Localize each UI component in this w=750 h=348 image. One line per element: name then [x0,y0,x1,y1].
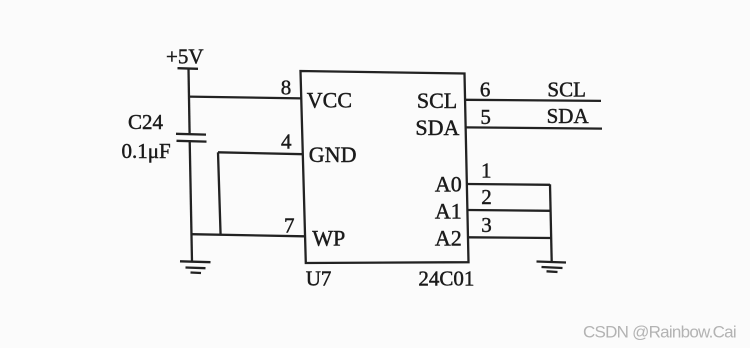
capacitor C24 bottom plate [177,140,207,143]
svg-text:A0: A0 [435,172,462,197]
wire pin 2 A1 [468,209,551,212]
svg-text:24C01: 24C01 [418,266,474,290]
svg-text:C24: C24 [128,110,164,134]
svg-text:3: 3 [481,213,492,237]
svg-text:4: 4 [281,130,292,154]
wire capacitor to ground vertical [190,141,192,262]
svg-text:1: 1 [481,158,492,182]
power +5V bar [178,67,199,70]
svg-text:+5V: +5V [166,44,204,68]
svg-text:7: 7 [284,214,295,238]
svg-text:SCL: SCL [547,77,586,101]
wire A0-A2 vertical to ground [550,184,552,261]
ground left symbol [180,261,211,273]
svg-text:A1: A1 [435,198,462,223]
wire pin 1 A0 [467,183,550,186]
svg-text:GND: GND [309,142,357,167]
svg-text:SCL: SCL [417,88,457,113]
wire GND branch vertical [218,152,221,235]
wire pin 7 WP [191,234,304,236]
svg-text:2: 2 [481,185,492,209]
wire +5V vertical to capacitor [189,69,190,135]
capacitor C24 top plate [176,133,206,136]
wire pin 6 SCL [465,100,601,101]
svg-text:A2: A2 [435,225,462,250]
ground right symbol [537,262,567,273]
svg-text:U7: U7 [306,266,332,290]
wire pin 8 VCC [189,97,302,99]
IC U7 24C01 box outline [301,71,469,263]
svg-text:CSDN @Rainbow.Cai: CSDN @Rainbow.Cai [583,322,736,341]
svg-text:8: 8 [281,76,292,100]
svg-text:6: 6 [480,77,491,101]
wire pin 3 A2 [468,236,551,239]
svg-text:SDA: SDA [547,104,590,128]
wire pin 5 SDA [466,127,602,128]
wire pin 4 GND horizontal [218,152,303,154]
svg-text:5: 5 [480,105,491,129]
svg-text:VCC: VCC [307,88,352,113]
svg-text:0.1μF: 0.1μF [122,139,171,163]
svg-text:SDA: SDA [415,115,459,140]
svg-text:WP: WP [312,226,345,251]
